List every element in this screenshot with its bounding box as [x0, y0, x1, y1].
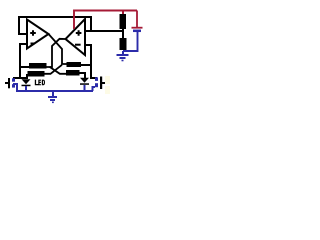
wire node to R1: [20, 66, 29, 68]
wire R5 to R6: [122, 29, 124, 38]
LED D2: [80, 78, 89, 85]
ground right: [117, 51, 129, 61]
ground bus blue: [13, 84, 95, 91]
battery B1: [123, 28, 143, 51]
resistor R5: [120, 14, 127, 29]
capacitor C1: [5, 78, 15, 88]
resistor R3: [28, 71, 45, 77]
wire cross R1-row to R4: [50, 67, 67, 74]
wire op1 minus input: [13, 44, 27, 78]
wire U2 minus loop: [86, 45, 97, 81]
wire feedback drop: [90, 17, 92, 31]
wire red V+ rail: [74, 11, 137, 30]
LED D1: [22, 79, 31, 86]
wire R2 right lead: [81, 64, 92, 66]
resistor R1: [29, 63, 47, 69]
resistor R6: [120, 38, 127, 50]
resistor R2: [67, 62, 82, 67]
wire top feedback rail: [19, 17, 92, 34]
wire R3 lead: [26, 74, 28, 78]
wire cross R2-row to R3: [45, 65, 63, 74]
resistor R4: [66, 70, 80, 76]
capacitor C2: [95, 77, 107, 90]
op-amp U2 (points left): [66, 19, 86, 55]
faint artifact smudges: [105, 76, 110, 84]
label LED: [35, 80, 45, 86]
op-amp U1: [27, 20, 49, 49]
ground mid: [48, 91, 57, 102]
wire red drop to battery: [136, 11, 138, 28]
wire red drop to R5: [122, 11, 124, 15]
wire low node: [13, 77, 28, 79]
wire R1 right to U2 apex diagonal: [47, 39, 66, 67]
wire U1 output diagonal: [49, 34, 69, 64]
wire U2 plus input to divider: [86, 30, 124, 32]
wire R4 to LED2: [80, 73, 86, 78]
